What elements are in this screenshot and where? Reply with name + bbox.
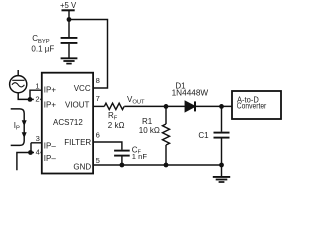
wire diode cathode to C1 node (196, 105, 232, 107)
svg-text:7: 7 (96, 94, 100, 103)
svg-text:Converter: Converter (237, 102, 267, 111)
svg-text:6: 6 (96, 130, 100, 139)
junction R1 ground node (164, 163, 169, 168)
+5V power bar (62, 9, 75, 11)
wire C1 bottom (221, 139, 223, 166)
wire +5V bar down to bypass cap (68, 10, 70, 37)
svg-text:1: 1 (35, 81, 39, 90)
svg-text:C1: C1 (198, 131, 209, 140)
svg-text:IP+: IP+ (44, 100, 57, 109)
svg-text:0.1 µF: 0.1 µF (31, 44, 54, 53)
svg-text:RF: RF (108, 111, 118, 122)
junction IP- node (28, 150, 33, 155)
svg-text:IP+: IP+ (44, 86, 57, 95)
wire top rail from +5V junction to VCC pin 8 (69, 20, 108, 89)
A-to-D converter box (232, 91, 281, 119)
svg-text:VIOUT: VIOUT (65, 100, 90, 109)
ground (main) (221, 165, 223, 176)
svg-text:2: 2 (35, 94, 39, 103)
svg-text:R1: R1 (142, 117, 153, 126)
junction C1 ground node (219, 163, 224, 168)
svg-text:VOUT: VOUT (127, 95, 145, 106)
svg-text:ACS712: ACS712 (53, 118, 83, 127)
Ip arrowhead upper (22, 120, 27, 126)
svg-text:VCC: VCC (74, 84, 91, 93)
capacitor C_BYP (61, 37, 78, 39)
Ip arrowhead lower (22, 132, 27, 138)
wire IP- return down-left (17, 153, 31, 171)
svg-text:CBYP: CBYP (32, 34, 50, 45)
svg-text:3: 3 (36, 134, 40, 143)
svg-text:10 kΩ: 10 kΩ (139, 126, 160, 135)
wire pin 6 stub to CF (94, 142, 122, 150)
svg-text:IP–: IP– (44, 154, 57, 163)
svg-text:8: 8 (96, 76, 100, 85)
junction CF ground node (120, 163, 125, 168)
capacitor C1 (214, 132, 230, 134)
junction IP+ node (28, 97, 33, 102)
wire R1 bottom (165, 145, 167, 165)
wire R1 top (165, 106, 167, 124)
AC current source (10, 76, 27, 93)
pin number 4 (34, 149, 40, 155)
ground (C_BYP) (61, 57, 78, 59)
resistor R1 zigzag (163, 124, 170, 145)
Ip loop arc (11, 109, 25, 145)
svg-text:FILTER: FILTER (64, 138, 91, 147)
wire CF bottom (121, 157, 123, 166)
junction VOUT node (164, 104, 169, 109)
resistor RF zigzag (104, 103, 124, 109)
IC ACS712 box (42, 73, 93, 174)
wire source to IP+ node (18, 93, 30, 100)
wire bottom ground rail pin 5 (94, 164, 222, 166)
svg-text:5: 5 (96, 156, 100, 165)
svg-text:IP–: IP– (44, 142, 57, 151)
diode D1 (185, 101, 195, 111)
junction C1 node (219, 104, 224, 109)
svg-text:GND: GND (73, 163, 91, 172)
svg-text:4: 4 (36, 147, 40, 156)
svg-text:+5 V: +5 V (60, 1, 77, 10)
wire VOUT node to diode anode (166, 105, 185, 107)
wire IP- bracket pins 3-4 (31, 143, 42, 153)
capacitor CF (114, 150, 130, 152)
wire C1 top (221, 106, 223, 131)
wire RF to VOUT node (124, 105, 166, 107)
junction +5V node (67, 17, 72, 22)
svg-text:IP: IP (14, 121, 20, 132)
wire pin 7 stub (94, 105, 105, 107)
wire IP+ bracket pins 1-2 (30, 90, 42, 99)
svg-text:1N4448W: 1N4448W (172, 88, 209, 97)
svg-text:2 kΩ: 2 kΩ (108, 121, 125, 130)
pin number 2 (34, 96, 40, 102)
svg-text:1 nF: 1 nF (132, 152, 148, 161)
